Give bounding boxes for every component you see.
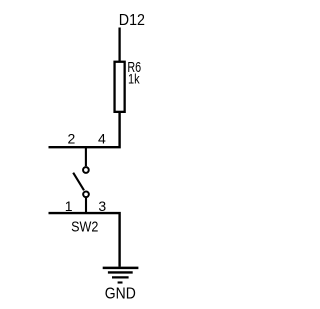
switch bottom bar and wire down to ground	[49, 213, 120, 267]
wire net D12 to resistor R6 top	[118, 28, 120, 63]
svg-text:D12: D12	[119, 12, 145, 29]
wire resistor R6 bottom to switch top bar	[49, 112, 120, 147]
switch contact circle (top)	[83, 167, 89, 173]
switch lever	[73, 173, 84, 191]
ground bar 1	[103, 267, 139, 270]
ground bar 4	[118, 281, 123, 283]
ground bar 3	[112, 276, 129, 278]
svg-text:SW2: SW2	[71, 220, 98, 236]
resistor R6 body	[115, 62, 125, 112]
svg-text:3: 3	[98, 198, 106, 214]
switch contact circle (bottom)	[83, 191, 89, 197]
ground bar 2	[108, 271, 133, 273]
svg-text:2: 2	[68, 130, 76, 146]
svg-text:1: 1	[65, 198, 73, 214]
switch pole wire from top bar	[85, 147, 87, 166]
svg-text:GND: GND	[105, 285, 136, 302]
svg-text:1k: 1k	[128, 71, 140, 87]
wire bottom contact to bottom bar	[85, 198, 87, 213]
svg-text:4: 4	[98, 130, 106, 146]
